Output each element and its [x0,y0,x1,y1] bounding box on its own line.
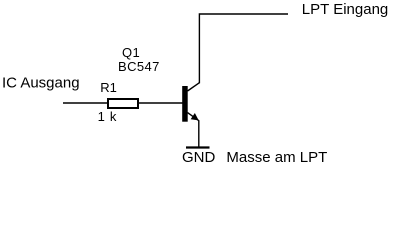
svg-text:IC Ausgang: IC Ausgang [2,74,80,91]
svg-text:LPT Eingang: LPT Eingang [302,1,388,18]
transistor Q1 collector slant [188,83,200,91]
svg-text:Masse am LPT: Masse am LPT [226,149,327,166]
svg-text:GND: GND [182,149,216,166]
transistor Q1 emitter arrow [192,114,198,120]
wire base: IC Ausgang to transistor [63,102,183,104]
svg-text:BC547: BC547 [118,59,160,74]
svg-text:Q1: Q1 [122,45,140,60]
wire emitter to GND [198,121,200,148]
svg-text:k: k [110,109,117,124]
ground symbol bar [186,146,210,148]
transistor Q1 base bar [182,86,188,122]
wire collector to LPT (top horizontal + vertical) [199,14,288,83]
svg-text:R1: R1 [100,80,117,95]
transistor Q1 emitter slant [188,113,200,121]
resistor R1 [108,99,138,108]
svg-text:1: 1 [98,109,105,124]
